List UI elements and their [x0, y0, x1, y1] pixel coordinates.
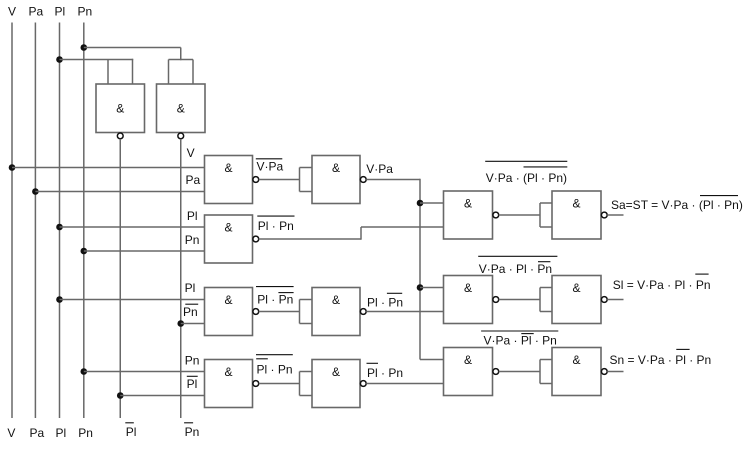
svg-text:V·Pa: V·Pa: [366, 162, 393, 176]
svg-text:&: &: [177, 102, 185, 116]
wire /Pn to U6: [181, 323, 205, 325]
wire U1 yoke right drop: [132, 59, 134, 84]
svg-text:Pa: Pa: [186, 173, 201, 187]
wire U13 output: [607, 299, 623, 301]
wire U9 to U14: [366, 383, 443, 385]
wire U15 output: [607, 371, 623, 373]
wire U7 input yoke: [299, 300, 301, 324]
node Pl to U5: [56, 224, 63, 231]
NAND gate U3: [205, 156, 253, 204]
wire V to U3: [12, 167, 205, 169]
svg-text:&: &: [332, 293, 340, 307]
node V·Pa to U12: [417, 284, 424, 291]
svg-text:Pl: Pl: [187, 377, 198, 391]
wire U7 to U12: [366, 311, 443, 313]
wire Pl to U6: [60, 299, 205, 301]
inverter bubble U14 output: [493, 369, 499, 375]
net Pl vertical rail: [59, 23, 61, 419]
wire Pl to U1 yoke: [60, 59, 134, 61]
inverter bubble U12 output: [493, 297, 499, 303]
svg-text:Pn: Pn: [78, 5, 93, 19]
svg-text:V·Pa: V·Pa: [257, 160, 284, 174]
inverter bubble U4 output: [360, 177, 366, 183]
inverter bubble U3 output: [253, 177, 259, 183]
NAND-inverter U2: [157, 84, 206, 133]
wire U11 output: [607, 214, 623, 216]
wire U1 yoke left drop: [107, 60, 109, 85]
svg-text:Pn: Pn: [185, 354, 200, 368]
inverter bubble U2: [178, 133, 184, 139]
svg-text:&: &: [464, 353, 472, 367]
svg-text:&: &: [224, 221, 232, 235]
wire V·Pa to U10: [420, 202, 444, 204]
wire U6 to U7: [259, 311, 300, 313]
node Pn to U5: [81, 248, 88, 255]
wire U11 input yoke: [539, 203, 541, 227]
inverter bubble U6 output: [253, 309, 259, 315]
NAND-inverter U9: [312, 360, 360, 408]
svg-text:Pa: Pa: [29, 5, 44, 19]
inverter bubble U11 output: [601, 212, 607, 218]
node Pl to U6: [56, 296, 63, 303]
NAND gate U12: [444, 276, 493, 324]
wire Pn to U2: [84, 47, 181, 49]
wire U13 input yoke: [539, 288, 541, 312]
inverter bubble U10 output: [493, 212, 499, 218]
wire Pa to U3: [35, 191, 204, 193]
wire V·Pa feed horizontal: [366, 179, 420, 181]
svg-text:V·Pa · (Pl · Pn): V·Pa · (Pl · Pn): [486, 171, 567, 185]
svg-text:V: V: [7, 426, 15, 440]
svg-text:Pl · Pn: Pl · Pn: [258, 219, 294, 233]
svg-text:Sa=ST = V·Pa · (Pl · Pn): Sa=ST = V·Pa · (Pl · Pn): [611, 198, 743, 212]
wire U2 yoke right drop: [192, 60, 194, 85]
wire V·Pa to U12: [420, 287, 444, 289]
node Pn to U8: [81, 368, 88, 375]
svg-text:&: &: [464, 281, 472, 295]
svg-text:Pl: Pl: [55, 5, 66, 19]
svg-text:&: &: [572, 197, 580, 211]
NAND-inverter U15: [552, 348, 601, 396]
svg-text:Pn: Pn: [183, 305, 198, 319]
svg-text:Sn = V·Pa · Pl · Pn: Sn = V·Pa · Pl · Pn: [610, 353, 712, 367]
wire U8 to U9: [259, 383, 300, 385]
svg-text:&: &: [224, 293, 232, 307]
wire Pn to U8: [84, 371, 205, 373]
wire U9 input yoke: [299, 372, 301, 396]
svg-text:Pn: Pn: [185, 425, 200, 439]
svg-text:V·Pa · Pl · Pn: V·Pa · Pl · Pn: [479, 262, 552, 276]
wire U3 to U4: [259, 179, 300, 181]
NAND-inverter U11: [552, 191, 601, 239]
wire U10 to U11: [499, 214, 540, 216]
NAND gate U6: [205, 288, 253, 336]
svg-text:&: &: [332, 161, 340, 175]
svg-text:&: &: [572, 281, 580, 295]
svg-text:Pn: Pn: [78, 426, 93, 440]
wire Pn to U5: [84, 250, 205, 252]
wire U14 to U15: [499, 371, 540, 373]
NAND-inverter U1: [96, 84, 145, 133]
wire V·Pa feed to U14: [420, 359, 444, 361]
svg-text:Pl · Pn: Pl · Pn: [367, 366, 403, 380]
svg-text:&: &: [332, 365, 340, 379]
svg-text:V·Pa · Pl · Pn: V·Pa · Pl · Pn: [484, 334, 557, 348]
svg-text:&: &: [572, 353, 580, 367]
inverter bubble U13 output: [601, 297, 607, 303]
net Pn vertical rail: [83, 23, 85, 419]
wire U15 input yoke: [539, 360, 541, 384]
node /Pn to U6: [177, 320, 184, 327]
NAND gate U14: [444, 348, 493, 396]
net V vertical rail: [11, 23, 13, 419]
svg-text:Pn: Pn: [185, 233, 200, 247]
wire /Pl to U8: [120, 395, 204, 397]
NAND gate U10: [444, 191, 493, 239]
wire U2 yoke horizontal: [169, 59, 194, 61]
svg-text:Pl · Pn: Pl · Pn: [257, 292, 293, 306]
net /Pl vertical rail: [119, 139, 121, 418]
wire U12 to U13: [499, 299, 540, 301]
svg-text:&: &: [224, 161, 232, 175]
wire Pl to U5: [60, 226, 205, 228]
svg-text:Pl · Pn: Pl · Pn: [257, 363, 293, 377]
svg-text:Pa: Pa: [30, 426, 45, 440]
node Pn feed to U2: [81, 44, 88, 51]
NAND gate U5: [205, 215, 253, 263]
net Pa vertical rail: [34, 23, 36, 419]
node V·Pa to U10: [417, 200, 424, 207]
inverter bubble U7 output: [360, 309, 366, 315]
svg-text:&: &: [224, 365, 232, 379]
svg-text:Pl: Pl: [185, 281, 196, 295]
svg-text:Pl · Pn: Pl · Pn: [367, 296, 403, 310]
node Pa to U3: [32, 188, 39, 195]
NAND gate U8: [205, 360, 253, 408]
svg-text:V: V: [8, 5, 16, 19]
svg-text:Sl = V·Pa · Pl · Pn: Sl = V·Pa · Pl · Pn: [613, 278, 711, 292]
svg-text:Pl: Pl: [56, 426, 67, 440]
inverter bubble U1: [117, 133, 123, 139]
svg-text:Pl: Pl: [126, 425, 137, 439]
wire U5 to U10: [259, 238, 361, 240]
inverter bubble U8 output: [253, 381, 259, 387]
inverter bubble U15 output: [601, 369, 607, 375]
svg-text:&: &: [116, 102, 124, 116]
node /Pl to U8: [117, 392, 124, 399]
NAND-inverter U4: [312, 156, 360, 204]
svg-text:V: V: [187, 146, 195, 160]
inverter bubble U9 output: [360, 381, 366, 387]
svg-text:&: &: [464, 197, 472, 211]
wire U4 input yoke: [299, 168, 301, 192]
node Pl feed to U1: [56, 56, 63, 63]
inverter bubble U5 output: [253, 236, 259, 242]
NAND-inverter U13: [552, 276, 601, 324]
wire V·Pa feed vertical: [419, 179, 421, 360]
wire U2 yoke left drop: [168, 60, 170, 85]
node V to U3: [9, 164, 16, 171]
svg-text:Pl: Pl: [187, 209, 198, 223]
net /Pn vertical rail: [180, 139, 182, 418]
NAND-inverter U7: [312, 288, 360, 336]
